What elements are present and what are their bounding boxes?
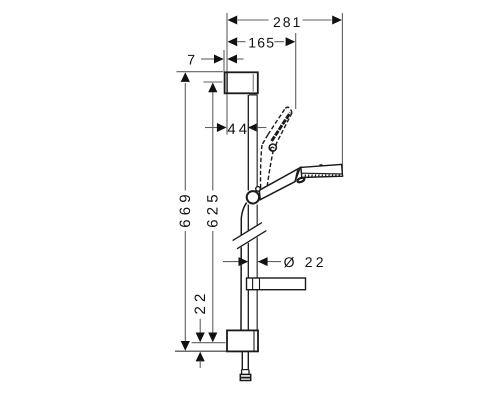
hose fitting stem	[241, 351, 243, 369]
upper handset joint rings	[269, 144, 276, 151]
hand shower head (solid)	[301, 164, 343, 177]
extension line bottom hole (625/22)	[192, 342, 226, 344]
dimension 165 line	[238, 41, 246, 43]
svg-text:281: 281	[273, 14, 302, 30]
dimension 669 arrows	[181, 72, 190, 82]
body left curve	[262, 135, 268, 146]
swivel ellipse	[297, 177, 305, 183]
right edge	[275, 113, 292, 149]
hand shower upper position dashed: spray edge	[261, 107, 292, 188]
dimension 44 arrows	[217, 123, 227, 132]
dimension 44 tails	[205, 127, 218, 129]
hose fitting collar	[241, 370, 243, 375]
holder ball	[247, 191, 259, 203]
extension line top of bar (669)	[177, 71, 224, 73]
dimension 165 arrows	[228, 37, 238, 46]
handle left dashed	[261, 145, 262, 189]
dimension diameter 22 tails	[223, 261, 240, 263]
bottom bracket	[227, 330, 258, 351]
upper handset spray face stripe	[272, 113, 291, 141]
extension line wall (left reference)	[226, 13, 228, 135]
soap dish shelf	[247, 278, 306, 290]
dimension 7 tails	[201, 58, 215, 60]
dimension 669 line	[184, 83, 186, 191]
dimension 22 tail bottom	[199, 361, 201, 369]
hand shower handle (solid)	[259, 168, 300, 200]
wall bar right edge	[256, 95, 258, 190]
cone joint	[295, 170, 298, 182]
extension line bracket face (7 dim)	[223, 50, 225, 72]
break line 1	[233, 223, 262, 241]
wall bar top shoulder	[249, 94, 257, 96]
extension line bar end (669/22)	[175, 350, 228, 352]
break line 2	[237, 231, 266, 249]
handle right dashed	[267, 150, 273, 189]
dimension 7 arrows	[214, 55, 224, 64]
head button	[320, 164, 323, 166]
svg-text:7: 7	[187, 52, 198, 68]
top bracket	[225, 72, 258, 93]
dimension diameter 22 arrows	[239, 257, 249, 266]
dimension 22 arrows	[196, 333, 205, 343]
svg-text:22: 22	[192, 289, 209, 314]
dimension 625 line	[212, 91, 214, 191]
break band blank	[232, 223, 268, 250]
dimension 22 tail top	[199, 319, 201, 334]
wall bar left edge	[247, 95, 249, 191]
tip arc	[285, 107, 292, 113]
extension line right (spray face reference)	[341, 13, 343, 174]
svg-text:Ø 22: Ø 22	[284, 254, 327, 270]
dimension 281 line	[238, 19, 269, 21]
dimension 281 arrows	[228, 16, 238, 25]
svg-text:625: 625	[204, 190, 221, 228]
extension line top hole (625)	[204, 81, 223, 83]
dimension 625 arrows	[208, 83, 217, 93]
svg-text:44: 44	[227, 121, 250, 138]
hose	[241, 203, 247, 331]
svg-text:669: 669	[177, 190, 194, 228]
svg-text:165: 165	[248, 34, 275, 50]
hose fitting nut	[240, 374, 250, 380]
spray nozzles	[305, 174, 340, 177]
holder knob	[256, 187, 261, 192]
extension line 165 end	[295, 33, 297, 109]
